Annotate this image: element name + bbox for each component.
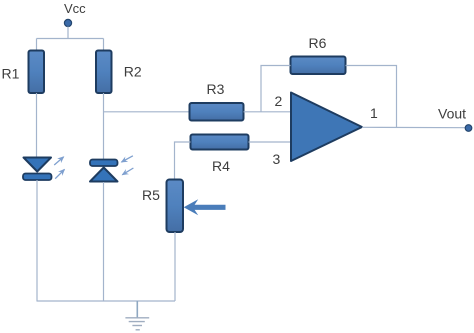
node Vcc terminal dot: [64, 19, 71, 26]
resistor R5: [167, 180, 184, 233]
svg-text:Vcc: Vcc: [64, 1, 86, 16]
wire R4 left to R5 top: [175, 142, 191, 180]
svg-text:R1: R1: [2, 66, 20, 82]
svg-text:1: 1: [370, 105, 378, 121]
wire junction to R3: [104, 111, 190, 113]
wire R2 to photodiode: [103, 93, 105, 159]
wire op-amp output to Vout: [362, 126, 466, 128]
wire photodiode to bottom rail: [103, 182, 105, 301]
photodiode D2: [90, 160, 118, 182]
wiper arrow into R5: [184, 199, 226, 215]
LED D1 emission arrow 1: [54, 157, 63, 165]
svg-text:Vout: Vout: [438, 106, 466, 122]
wire R3 to op-amp pin 2: [244, 111, 292, 113]
svg-text:3: 3: [273, 151, 281, 167]
resistor R3: [190, 103, 244, 121]
svg-text:R5: R5: [142, 187, 160, 203]
wire LED to bottom rail: [36, 180, 38, 301]
wire R6 right to output: [346, 66, 397, 128]
svg-text:R3: R3: [207, 81, 225, 97]
resistor R4: [191, 135, 249, 150]
svg-text:R2: R2: [124, 64, 142, 80]
resistor R6: [291, 57, 346, 75]
wire top rail: [37, 38, 104, 40]
wire R5 to bottom rail: [174, 232, 176, 301]
svg-text:R6: R6: [309, 35, 327, 51]
LED D1 emission arrow 2: [55, 170, 64, 179]
wire R1 to LED: [36, 93, 38, 158]
wire R6 left to inverting input: [261, 66, 291, 112]
photodiode D2 incident arrow 2: [122, 168, 133, 175]
svg-text:2: 2: [275, 93, 283, 109]
wire rail to R2: [103, 39, 105, 52]
wire bottom rail: [37, 300, 176, 302]
resistor R1: [29, 51, 45, 94]
wire ground stub: [136, 301, 138, 318]
svg-text:R4: R4: [212, 158, 230, 174]
photodiode D2 incident arrow 1: [122, 156, 133, 162]
ground: [125, 318, 149, 330]
wire R4 to op-amp pin 3: [249, 141, 292, 143]
node Vout terminal dot: [465, 125, 472, 132]
LED D1: [23, 158, 52, 181]
wire Vcc dot to rail: [67, 27, 69, 39]
wire rail to R1: [36, 39, 38, 52]
op-amp U1: [291, 93, 362, 162]
resistor R2: [96, 51, 112, 94]
